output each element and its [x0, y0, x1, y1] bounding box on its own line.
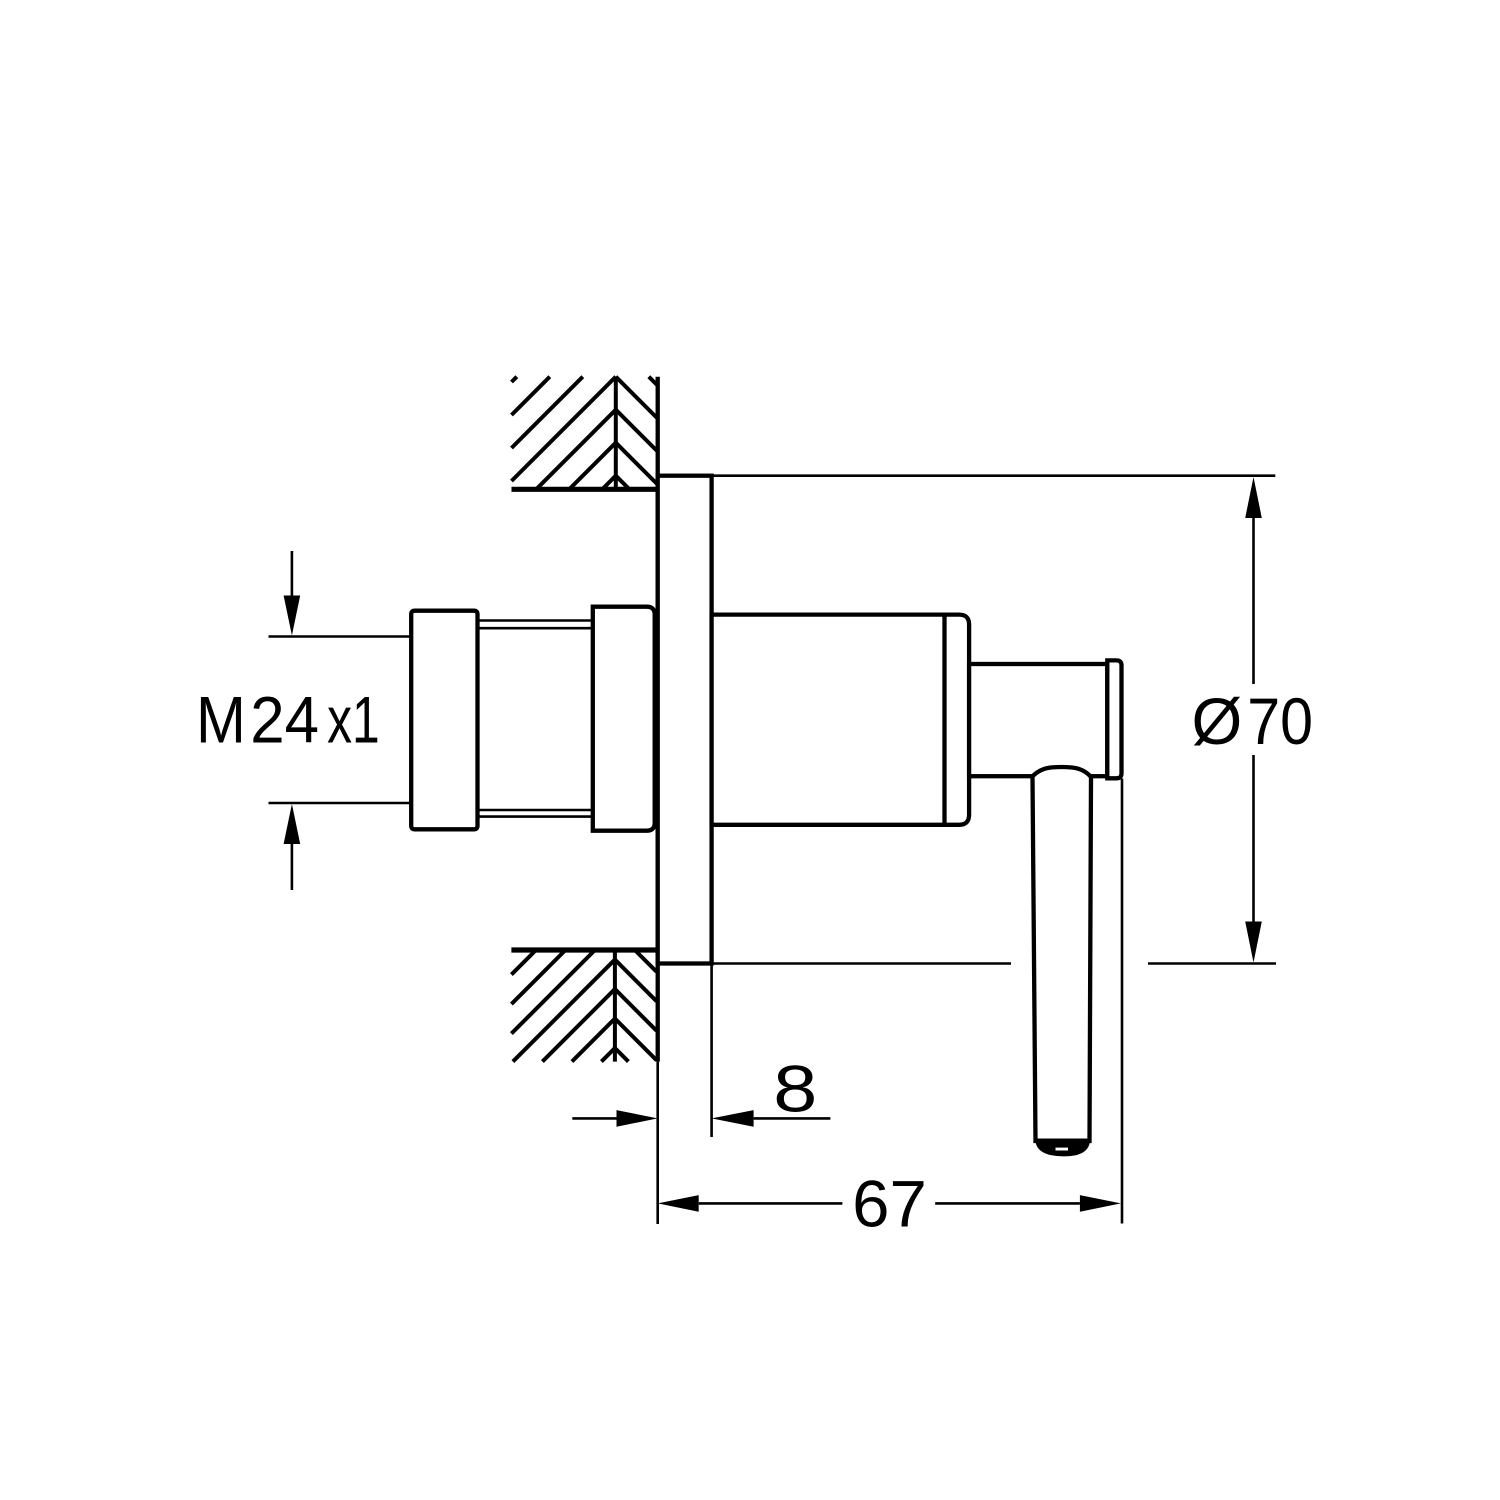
- dia70 dim line lower: [1252, 755, 1255, 922]
- lower wall top edge: [511, 947, 657, 952]
- dim 67 left arrowhead: [658, 1195, 699, 1212]
- lever handle: [1033, 767, 1092, 1141]
- upper wall hatch diagonal lines: [512, 377, 658, 490]
- svg-text:70: 70: [1247, 685, 1313, 759]
- label dia 70: [1192, 685, 1243, 758]
- wall face line: [656, 377, 660, 1062]
- svg-text:Ø: Ø: [1192, 685, 1243, 758]
- lever bottom cap: [1035, 1139, 1090, 1157]
- M24 lower dim line: [269, 802, 412, 805]
- thread lines top: [478, 621, 593, 629]
- thread lines bottom: [478, 810, 593, 817]
- upper wall hatch divider: [614, 377, 618, 490]
- label 8: [773, 1053, 817, 1126]
- dim 67 right extension line: [1121, 779, 1124, 1224]
- dim 8 extension line: [710, 964, 713, 1138]
- cylinder end ring line: [942, 615, 946, 825]
- handle hub end cap: [1107, 660, 1121, 778]
- dim 8 right arrowhead: [712, 1110, 754, 1127]
- escutcheon plate: [658, 476, 712, 964]
- M24 lower arrow line: [291, 843, 294, 890]
- lower wall hatch divider: [613, 950, 617, 1062]
- M24 upper arrowhead: [284, 596, 301, 636]
- upper wall bottom edge: [512, 487, 658, 492]
- svg-text:67: 67: [852, 1168, 927, 1241]
- label 67: [852, 1168, 927, 1241]
- valve cylinder body: [712, 615, 970, 825]
- svg-text:8: 8: [773, 1053, 817, 1126]
- dim 8 right line: [754, 1117, 831, 1120]
- svg-text:M: M: [196, 684, 246, 757]
- dim 67 line left: [699, 1202, 843, 1205]
- lower wall hatch diagonal lines: [511, 950, 656, 1062]
- svg-text:x1: x1: [327, 684, 380, 757]
- handle hub: [969, 664, 1107, 776]
- valve sleeve through wall: [593, 607, 655, 831]
- dia70 bottom extension line: [712, 962, 1276, 965]
- M24 lower arrowhead: [284, 804, 301, 844]
- dia70 top extension line: [712, 474, 1276, 477]
- dim 8 left line: [572, 1117, 616, 1120]
- lever bottom highlight: [1056, 1148, 1069, 1151]
- M24 upper arrow line: [291, 551, 294, 597]
- svg-text:24: 24: [250, 683, 319, 757]
- dia70 dim line upper: [1252, 517, 1255, 684]
- dim 67 right arrowhead: [1080, 1195, 1121, 1212]
- label M 24 x1: [196, 684, 246, 757]
- dia70 upper arrowhead: [1245, 477, 1262, 518]
- dim 67 line right: [935, 1202, 1080, 1205]
- dia70 lower arrowhead: [1245, 922, 1262, 963]
- dim 8 left arrowhead: [617, 1110, 658, 1127]
- threaded cap nut behind wall: [411, 611, 477, 830]
- M24 upper dim line: [269, 635, 412, 638]
- wall face extension line for 67: [656, 1062, 659, 1224]
